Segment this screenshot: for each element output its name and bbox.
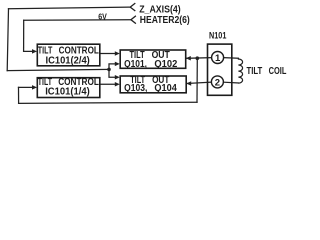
wire TILT OUT Q103,Q104 to pin 2 — [187, 82, 212, 83]
arrow into TO2 top input — [115, 75, 120, 80]
wire junction A down branch — [109, 69, 116, 77]
inductor TILT COIL (bumps) — [238, 59, 242, 83]
svg-text:Q102: Q102 — [154, 59, 177, 70]
svg-text:Q104: Q104 — [154, 83, 177, 94]
arrow into TC2 left — [32, 85, 37, 90]
svg-text:IC101(1/4): IC101(1/4) — [45, 87, 90, 98]
wire TC1 output to TILT OUT Q101,Q102 — [101, 52, 117, 54]
svg-text:6V: 6V — [98, 11, 107, 21]
wire junction B vertical drop — [196, 58, 198, 102]
wire pin 2 to coil bottom — [224, 81, 239, 84]
box TILT OUT Q101,Q102 — [120, 50, 186, 68]
junction B dot — [196, 56, 200, 60]
connector N101 box — [208, 44, 232, 95]
pin 2 circle — [211, 76, 223, 88]
svg-text:IC101(2/4): IC101(2/4) — [46, 55, 90, 66]
arrow into TO1 right side (from pin 1) — [186, 56, 191, 61]
svg-text:Q103,: Q103, — [124, 83, 148, 94]
wire left vertical (Z_AXIS feed down) — [7, 9, 8, 71]
arrow into TC1 left — [32, 49, 37, 54]
wire Z_AXIS branch to junction A — [7, 69, 109, 70]
pin 1 circle — [212, 52, 224, 64]
arrow into TO2 bottom input — [115, 82, 120, 87]
svg-text:Z_AXIS(4): Z_AXIS(4) — [139, 4, 181, 15]
svg-text:TILT: TILT — [247, 66, 263, 77]
svg-text:N101: N101 — [209, 31, 226, 41]
junction A dot — [107, 68, 111, 72]
wire pin 1 to coil top — [224, 58, 239, 59]
wire junction A up branch — [109, 64, 116, 70]
svg-text:COIL: COIL — [269, 66, 287, 77]
box TILT CONTROL IC101(1/4) — [37, 78, 100, 98]
svg-text:HEATER2(6): HEATER2(6) — [140, 15, 190, 26]
arrow into TO2 right side (from pin 2) — [186, 81, 191, 86]
arrow into TO1 top input — [115, 51, 120, 56]
connector chevron HEATER2 — [131, 16, 136, 23]
svg-text:Q101,: Q101, — [124, 59, 147, 70]
box TILT CONTROL IC101(2/4) — [37, 44, 100, 66]
arrow into TO1 bottom input — [115, 62, 120, 67]
wire Z_AXIS horizontal — [9, 7, 131, 9]
wire HEATER2 vertical drop — [23, 20, 25, 51]
wire bottom feedback vertical rise — [18, 87, 20, 103]
wire HEATER2 horizontal — [24, 19, 131, 22]
svg-text:2: 2 — [215, 77, 220, 88]
box TILT OUT Q103,Q104 — [120, 76, 186, 93]
wire into TILT CONTROL IC101(2/4) input — [24, 50, 34, 52]
svg-text:1: 1 — [215, 53, 221, 64]
wire TILT OUT Q101,Q102 to pin 1 — [186, 57, 211, 60]
wire bottom feedback horizontal — [19, 102, 197, 103]
wire into TILT CONTROL IC101(1/4) input — [19, 86, 34, 88]
connector chevron Z_AXIS — [130, 4, 135, 11]
wire TC2 output to TILT OUT Q103,Q104 — [101, 83, 117, 85]
